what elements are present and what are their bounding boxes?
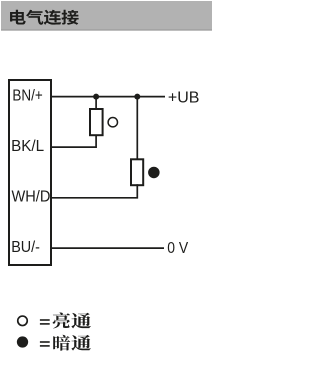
title bar	[1, 1, 212, 31]
svg-text:WH/D: WH/D	[11, 188, 50, 205]
svg-text:BN/+: BN/+	[12, 88, 42, 105]
wire J2 down to R2	[136, 97, 138, 160]
svg-text:+UB: +UB	[168, 89, 200, 106]
wire BU/- to 0 V	[51, 247, 164, 249]
legend text 亮通 (light on)	[53, 313, 91, 329]
light-on indicator (open circle)	[108, 118, 117, 127]
junction J1	[93, 94, 99, 100]
junction J2	[134, 94, 140, 100]
svg-text:BU/-: BU/-	[11, 238, 40, 256]
svg-text:BK/L: BK/L	[11, 138, 44, 155]
wire R1 to BK/L	[51, 135, 96, 147]
wire J1 down to R1	[95, 97, 97, 109]
legend symbol: open circle (light on)	[18, 316, 28, 326]
wire R2 to WH/D	[51, 184, 137, 198]
legend equals sign line 2	[40, 341, 50, 347]
legend symbol: filled circle (dark on)	[17, 336, 28, 347]
resistor R1 (load, light-on output)	[90, 109, 103, 135]
connector body (4-wire sensor)	[9, 80, 51, 265]
dark-on indicator (filled circle)	[148, 167, 160, 179]
resistor R2 (load, dark-on output)	[131, 159, 143, 185]
legend text 暗通 (dark on)	[53, 335, 91, 351]
wire BN/+ to +UB rail	[51, 96, 165, 98]
legend equals sign line 1	[40, 319, 50, 325]
title text 电气连接	[10, 10, 79, 25]
svg-text:0 V: 0 V	[167, 240, 188, 257]
